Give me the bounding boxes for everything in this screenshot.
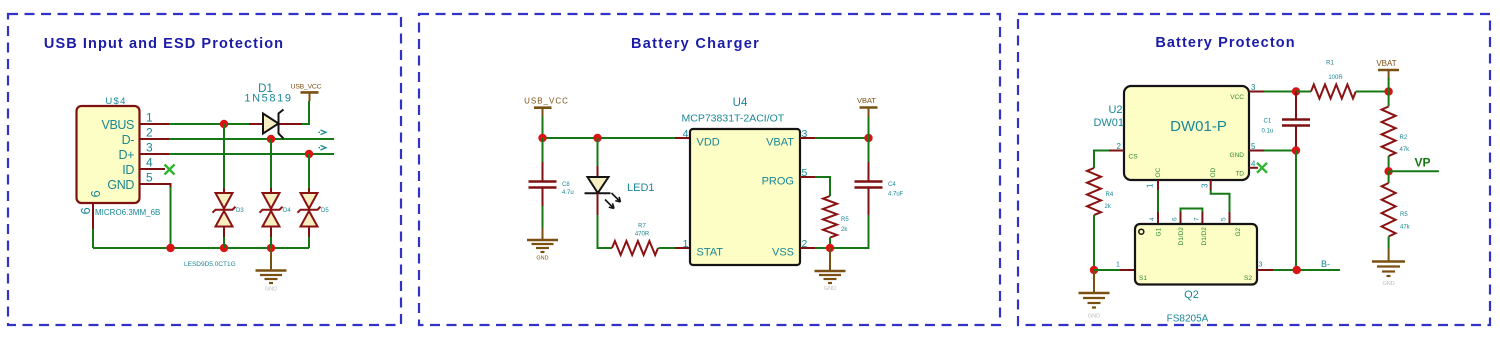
svg-text:Battery Charger: Battery Charger [631,36,760,52]
svg-text:R7: R7 [638,224,646,230]
svg-text:S1: S1 [1139,275,1147,282]
pin stub D1D2 a [1180,212,1182,224]
ground symbol right [1372,249,1405,288]
junction dot B- node [1293,266,1301,274]
diode D1 pin wires [249,123,263,125]
no-connect X on ID pin [165,165,175,175]
junction dot VSS node [826,244,834,252]
svg-text:2k: 2k [1105,204,1112,210]
junction dot D+ D5 [305,150,313,158]
svg-text:4: 4 [683,128,689,140]
wire VP [1389,170,1439,172]
pin stub G2 [1229,212,1231,224]
wire junction down to LED [597,138,599,166]
wire VSS to node [815,247,830,249]
capacitor C4 [855,162,904,215]
svg-text:GND: GND [265,287,277,293]
svg-text:LED1: LED1 [627,182,655,194]
wire D5 drop [308,154,310,188]
svg-text:D-: D- [122,133,135,147]
svg-text:D+: D+ [118,148,134,162]
svg-text:2k: 2k [841,227,848,233]
ground symbol protection [1079,270,1110,320]
wire pin6 down to rail [92,229,94,248]
IC U4 body [690,129,800,265]
resistor R5 47k protection [1382,183,1411,236]
svg-text:MICRO6.3MM_6B: MICRO6.3MM_6B [95,208,160,217]
junction dot VBUS-D3 [220,120,228,128]
svg-text:4: 4 [146,156,153,170]
wire OC to G1 [1157,190,1159,212]
svg-text:4.7uF: 4.7uF [888,192,904,198]
svg-text:1N5819: 1N5819 [244,93,292,105]
wire LED down to resistor [598,215,613,248]
svg-text:R5: R5 [1400,212,1408,218]
svg-text:GND: GND [536,256,548,262]
junction dot VCC node [1292,87,1300,95]
resistor R5 2k [823,196,849,238]
no-connect X on TD [1257,163,1267,173]
pin stub D1D2 b [1201,212,1203,224]
wire GND pin to C1 node [1264,150,1296,152]
junction dot rail-pin5 [166,244,174,252]
svg-text:VBAT: VBAT [766,137,794,149]
svg-text:OD: OD [1210,167,1217,177]
junction dot GND node [1292,146,1300,154]
svg-text:3: 3 [1201,183,1210,188]
svg-text:1: 1 [1146,183,1155,188]
svg-text:C8: C8 [562,182,570,188]
pin stub D+ [139,153,169,155]
svg-text:U4: U4 [733,97,748,109]
TVS diode D5 [298,193,330,227]
pin stub VDD [675,137,690,139]
wire VP node down to R5 [1388,171,1390,183]
wire VDD rail [543,137,676,139]
wire OD to G2 [1211,190,1230,212]
frame box Battery Charger section [419,14,1000,325]
svg-text:GND: GND [824,286,836,292]
junction dot LED [593,134,601,142]
wire D5 bottom [308,227,310,238]
wire D3 bottom [223,227,225,238]
pin stub GND dw01 [1249,150,1264,152]
diode D1 schottky symbol [263,114,279,134]
svg-text:47k: 47k [1400,225,1411,231]
svg-text:VP: VP [1415,156,1431,170]
svg-text:3: 3 [146,141,153,155]
junction dot VBAT node [1384,87,1392,95]
wire ground rail [93,247,309,249]
svg-text:R1: R1 [1326,61,1334,67]
svg-text:TD: TD [1235,171,1244,178]
wire CS to R4 [1094,151,1109,169]
ground symbol under VSS [815,248,846,292]
Q2 pin1 marker circle [1139,229,1144,234]
ground symbol under C8 [527,228,558,262]
USB connector U$4 body [77,106,140,203]
svg-text:U2: U2 [1108,104,1122,116]
svg-text:USB Input and ESD Protection: USB Input and ESD Protection [44,36,284,52]
resistor R2 47k [1382,107,1411,157]
svg-text:VBAT: VBAT [1376,59,1396,68]
junction dot rail-D4 [267,244,275,252]
wire VBAT supply down [1388,78,1390,92]
svg-text:3: 3 [1259,262,1263,269]
capacitor C1 [1262,119,1311,151]
svg-text:D1/D2: D1/D2 [1178,227,1185,246]
wire R4 down to S1 rail [1093,215,1095,270]
svg-text:VBAT: VBAT [857,96,876,105]
svg-text:47k: 47k [1400,147,1411,153]
TVS diode D3 [213,193,245,227]
svg-text:7: 7 [1194,217,1201,221]
pin stub GND pin5 [139,184,171,189]
svg-text:1: 1 [683,238,689,250]
junction dot VBAT [864,134,872,142]
svg-text:GND: GND [1230,152,1245,159]
wire VBAT junction to cap C4 [868,138,870,162]
capacitor C8 [529,162,574,206]
svg-text:C4: C4 [888,182,896,188]
wire PROG to resistor R5 [815,177,830,196]
svg-text:R4: R4 [1106,192,1114,198]
pin stub OD [1210,180,1212,190]
wire VBAT to supply [815,137,869,139]
ground symbol section1 [256,248,287,293]
wire R2 top [1388,92,1390,107]
svg-text:DW01: DW01 [1093,117,1124,129]
svg-text:D4: D4 [283,208,291,214]
supply symbol USB_VCC charger [524,97,569,118]
svg-text:Q2: Q2 [1184,289,1199,301]
svg-text:B-: B- [1321,259,1330,269]
wire D+ net [169,153,334,155]
resistor R4 2k [1087,168,1114,215]
svg-text:4: 4 [1149,217,1156,221]
svg-text:D5: D5 [321,208,329,214]
wire supply down [868,117,870,138]
svg-text:ID: ID [122,163,134,177]
pin stub CS [1109,150,1124,152]
svg-text:FS8205A: FS8205A [1167,314,1209,325]
wire VCC to node [1264,91,1296,93]
svg-text:VBUS: VBUS [102,118,135,132]
svg-text:2: 2 [146,126,153,140]
supply symbol VBAT protection [1376,59,1399,80]
wire R5 to ground [1388,237,1390,249]
svg-text:VDD: VDD [697,137,720,149]
net flag D- [319,130,327,135]
svg-text:4.7u: 4.7u [562,190,574,196]
pin stub S1 [1120,269,1135,271]
frame box USB section [8,14,401,325]
svg-text:6: 6 [88,190,103,197]
pin stub VBUS [139,123,169,125]
svg-text:R2: R2 [1400,135,1408,141]
wire diode cathode to USB_VCC [302,101,309,124]
svg-text:GND: GND [107,178,134,192]
svg-text:GND: GND [1382,281,1394,287]
pin stub TD [1249,167,1258,169]
net flag D+ [319,145,327,150]
wire node to R1 [1296,91,1311,93]
pin stub PROG [800,176,815,178]
svg-text:470R: 470R [635,232,650,238]
svg-text:PROG: PROG [762,176,794,188]
TVS diode D4 [260,193,292,227]
svg-text:G1: G1 [1156,227,1163,236]
pin stub shield pin6 [92,203,94,229]
svg-text:USB_VCC: USB_VCC [291,84,322,91]
pin stub VCC [1249,91,1264,93]
svg-text:STAT: STAT [697,247,724,259]
svg-text:GND: GND [1088,314,1100,320]
wire cap C4 down to VSS rail [830,215,869,248]
wire GND node down to B- rail [1295,151,1297,271]
wire VBUS junction down to D3 [223,124,225,188]
wire R2 bottom to VP node [1388,156,1390,171]
pin stub S2 [1257,269,1273,271]
svg-text:G2: G2 [1235,227,1242,236]
junction dot S1 node [1090,266,1098,274]
svg-text:MCP73831T-2ACI/OT: MCP73831T-2ACI/OT [682,113,785,125]
wire to cap C8 [542,138,544,162]
junction dot VP node [1384,167,1392,175]
pin stub STAT [675,247,690,249]
pin stub G1 [1157,212,1159,224]
wire D- net [169,138,334,140]
svg-text:D3: D3 [236,208,244,214]
svg-text:U$4: U$4 [105,96,126,107]
resistor R1 100R [1311,61,1356,99]
wire VBUS to diode [169,123,249,125]
svg-text:Battery Protecton: Battery Protecton [1155,35,1295,51]
svg-text:OC: OC [1155,167,1162,177]
wire pin5 down to rail [170,187,172,248]
svg-text:R5: R5 [841,217,849,223]
svg-text:6: 6 [78,207,93,214]
wire S1 node to Q2 [1094,269,1120,271]
svg-text:CS: CS [1129,154,1139,161]
supply symbol VBAT [857,96,878,119]
wire resistor to STAT [659,247,676,249]
transistor Q2 body [1135,224,1257,285]
svg-text:VCC: VCC [1230,94,1244,101]
wire USB_VCC down [542,116,544,138]
wire R1 to VBAT node [1356,91,1389,93]
junction dot rail-D3 [220,244,228,252]
svg-text:USB_VCC: USB_VCC [524,97,569,106]
svg-text:LESD9D5.0CT1G: LESD9D5.0CT1G [184,261,236,268]
junction dot D- D4 [267,135,275,143]
resistor R7 470R [612,224,658,256]
pin stub VBAT [800,137,815,139]
wire S2 to B- [1273,269,1340,271]
svg-text:5: 5 [1221,217,1228,221]
LED1 symbol [585,166,621,215]
supply symbol USB_VCC [309,92,311,101]
svg-text:VSS: VSS [772,247,794,259]
svg-text:0.1u: 0.1u [1262,129,1274,135]
wire resistor R5 to VSS node [829,238,831,249]
svg-text:100R: 100R [1328,75,1343,81]
svg-text:5: 5 [146,171,153,185]
svg-text:1: 1 [1116,262,1120,269]
svg-text:6: 6 [1172,217,1179,221]
svg-text:D1/D2: D1/D2 [1201,227,1208,246]
IC U2 DW01 body [1124,86,1249,180]
pin stub VSS [800,247,815,249]
junction dot cap C8 [538,134,546,142]
svg-text:C1: C1 [1264,119,1272,125]
pin stub D- [139,138,169,140]
pin stub ID [139,168,165,170]
wire D1D2 bridge [1181,209,1203,213]
svg-text:1: 1 [146,111,153,125]
pin stub OC [1157,180,1159,190]
wire D4 bottom [270,227,272,238]
frame box Battery Protection section [1018,14,1490,325]
wire cap C8 to gnd [542,206,544,228]
wire D4 drop [270,139,272,188]
svg-text:DW01-P: DW01-P [1170,118,1227,135]
svg-text:S2: S2 [1244,275,1252,282]
wire VCC node down to C1 [1295,92,1297,120]
